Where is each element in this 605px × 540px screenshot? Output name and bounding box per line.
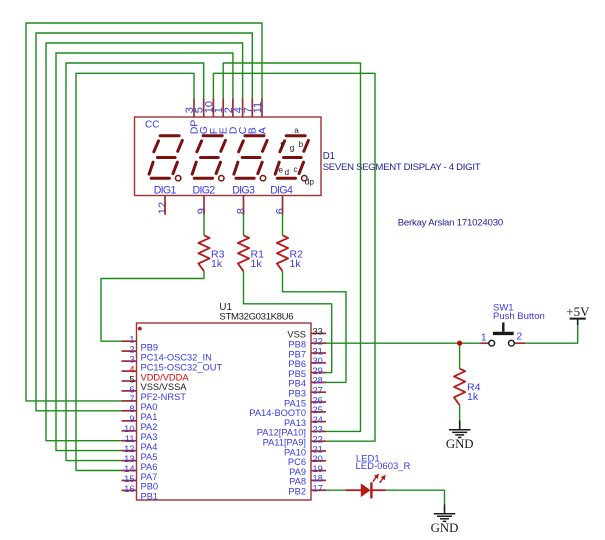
wire U1 PB2 pin17 to LED1 anode (326, 489, 346, 491)
display segment pin names DP G F E D C B A (188, 120, 268, 135)
svg-text:1: 1 (481, 332, 487, 343)
svg-text:PF2-NRST: PF2-NRST (141, 392, 187, 402)
svg-text:PA13: PA13 (284, 418, 306, 428)
svg-text:18: 18 (313, 474, 323, 484)
wire net D : display pin2 to U1 PA5 (56, 53, 233, 451)
svg-text:23: 23 (313, 425, 323, 435)
svg-text:DIG1: DIG1 (154, 185, 177, 197)
svg-text:c: c (294, 165, 298, 174)
svg-text:3: 3 (129, 354, 134, 364)
svg-text:SEVEN SEGMENT DISPLAY - 4 DIGI: SEVEN SEGMENT DISPLAY - 4 DIGIT (323, 162, 481, 173)
wire net C : display pin4 to U1 PA4 (46, 43, 243, 441)
svg-text:PC15-OSC32_OUT: PC15-OSC32_OUT (141, 362, 223, 372)
display bottom pin stubs (165, 195, 283, 215)
svg-text:d: d (285, 168, 290, 177)
svg-text:VSS/VSSA: VSS/VSSA (141, 382, 188, 392)
svg-text:9: 9 (129, 414, 134, 424)
svg-text:GND: GND (431, 521, 459, 535)
U1 right pin names (249, 330, 306, 497)
svg-text:PB3: PB3 (288, 389, 306, 399)
svg-text:7: 7 (129, 394, 134, 404)
svg-text:PA15: PA15 (284, 398, 306, 408)
resistor R1 (238, 235, 249, 271)
svg-text:DIG3: DIG3 (232, 185, 255, 197)
svg-text:11: 11 (125, 434, 135, 444)
svg-text:PA7: PA7 (141, 472, 158, 482)
+5V power terminal (570, 318, 586, 320)
wire display DIG2 pin9 to R3 (203, 214, 205, 235)
svg-text:21: 21 (313, 444, 323, 454)
svg-text:STM32G031K8U6: STM32G031K8U6 (219, 312, 293, 323)
svg-text:D1: D1 (323, 151, 335, 162)
svg-text:+5V: +5V (566, 304, 590, 319)
svg-text:22: 22 (313, 435, 323, 445)
svg-text:27: 27 (313, 386, 323, 396)
display digit 4 segments (275, 136, 308, 179)
svg-text:13: 13 (124, 454, 134, 464)
svg-text:PB5: PB5 (288, 369, 306, 379)
svg-text:PA12[PA10]: PA12[PA10] (257, 428, 306, 438)
svg-text:DIG2: DIG2 (193, 185, 216, 197)
svg-text:PA5: PA5 (141, 452, 158, 462)
U1 pin-1 marker dot (138, 327, 142, 331)
display digit-4 segment letters a f g b e d c dp (278, 126, 314, 187)
wire R4 to GND (459, 405, 461, 421)
svg-text:33: 33 (313, 327, 323, 337)
svg-text:10: 10 (124, 424, 134, 434)
wire net F : display pin10 to U1 PA11 (213, 73, 375, 441)
push button SW1 contacts and actuator (489, 340, 495, 346)
ground under R4 (459, 421, 461, 430)
wire net E : display pin1 to U1 PA12 (223, 63, 360, 431)
svg-text:16: 16 (124, 484, 134, 494)
svg-text:15: 15 (124, 474, 134, 484)
svg-text:e: e (278, 166, 283, 175)
wire R1 bottom to U1 PB5 pin29 (244, 271, 332, 372)
U1 left pin names (141, 342, 223, 501)
svg-text:PA4: PA4 (141, 442, 158, 452)
wire SW1 pin2 to +5V (525, 325, 577, 344)
svg-text:PC14-OSC32_IN: PC14-OSC32_IN (141, 352, 212, 362)
resistor R4 (454, 369, 465, 406)
display digit 1 segments (149, 136, 182, 179)
svg-text:2: 2 (129, 344, 134, 354)
svg-text:5: 5 (129, 374, 134, 384)
LED1 leads (346, 489, 361, 491)
svg-text:PB4: PB4 (288, 379, 306, 389)
svg-text:26: 26 (313, 395, 323, 405)
svg-text:dp: dp (305, 178, 315, 187)
display top pin stubs (194, 99, 262, 118)
op-amp-style MCU U1 body (137, 323, 312, 500)
svg-text:PB8: PB8 (288, 340, 306, 350)
svg-text:Push Button: Push Button (493, 311, 545, 322)
svg-text:LED-0603_R: LED-0603_R (356, 461, 411, 472)
junction node at SW1/R4 (457, 341, 462, 346)
wire junction to R4 (459, 343, 461, 368)
resistor R3 (198, 235, 209, 271)
svg-text:1k: 1k (251, 258, 263, 270)
svg-text:PA6: PA6 (141, 462, 158, 472)
svg-text:31: 31 (313, 346, 323, 356)
svg-text:PA2: PA2 (141, 422, 158, 432)
svg-text:GND: GND (446, 437, 474, 451)
svg-text:2: 2 (517, 332, 523, 343)
wire display DIG4 pin6 to R2 (282, 214, 284, 235)
svg-text:PA3: PA3 (141, 432, 158, 442)
svg-text:VDD/VDDA: VDD/VDDA (141, 372, 190, 382)
U1 left pin stubs 1-16 (122, 341, 137, 490)
svg-text:PA10: PA10 (284, 447, 306, 457)
svg-text:4: 4 (129, 364, 134, 374)
svg-text:30: 30 (313, 356, 323, 366)
wire display DIG3 pin8 to R1 (243, 214, 245, 235)
U1 right pin numbers 17-33 (313, 327, 323, 494)
wire R2 bottom to U1 PB4 pin28 (283, 271, 347, 382)
wire R3 bottom to U1 PB9 pin1 (101, 271, 204, 341)
display top pin numbers 3 5 10 1 2 4 7 11 (184, 101, 264, 113)
svg-text:PA9: PA9 (289, 467, 306, 477)
wire net G : display pin5 to U1 PA6 (66, 63, 204, 461)
svg-text:VSS: VSS (287, 330, 306, 340)
svg-text:32: 32 (313, 337, 323, 347)
svg-text:PC6: PC6 (288, 457, 306, 467)
svg-text:19: 19 (313, 464, 323, 474)
svg-text:1k: 1k (467, 391, 479, 403)
ground under LED1 (444, 504, 446, 513)
7-segment display D1 body (135, 117, 322, 196)
svg-text:8: 8 (129, 404, 134, 414)
svg-text:PB7: PB7 (288, 349, 306, 359)
svg-text:PB0: PB0 (141, 482, 159, 492)
svg-text:a: a (294, 126, 299, 135)
svg-text:PB9: PB9 (141, 342, 159, 352)
svg-text:14: 14 (124, 464, 134, 474)
display digit 3 segments (234, 136, 267, 179)
svg-text:9: 9 (196, 208, 208, 214)
svg-text:6: 6 (129, 384, 134, 394)
svg-text:g: g (290, 143, 295, 152)
wire net DP : display pin3 to U1 PA7 (76, 73, 194, 470)
svg-text:PA0: PA0 (141, 402, 158, 412)
display bottom pin numbers 12 9 8 6 (157, 202, 287, 214)
push button SW1 pin stubs (480, 342, 488, 344)
svg-text:PB2: PB2 (288, 487, 306, 497)
svg-text:6: 6 (275, 208, 287, 214)
svg-text:24: 24 (313, 415, 323, 425)
svg-text:25: 25 (313, 405, 323, 415)
wire LED1 cathode to GND (386, 490, 445, 505)
svg-text:1k: 1k (290, 258, 302, 270)
svg-text:28: 28 (313, 376, 323, 386)
U1 left pin numbers 1-16 (124, 335, 134, 494)
svg-text:12: 12 (157, 202, 169, 214)
svg-text:12: 12 (124, 444, 134, 454)
svg-text:PA14-BOOT0: PA14-BOOT0 (249, 408, 306, 418)
LED1 emission arrows (373, 474, 386, 483)
svg-text:DIG4: DIG4 (270, 185, 293, 197)
svg-text:29: 29 (313, 366, 323, 376)
svg-text:17: 17 (313, 484, 323, 494)
wire U1 PB8 pin32 to SW1 pin1 (326, 342, 480, 344)
svg-text:A: A (256, 127, 268, 134)
svg-text:PB1: PB1 (141, 492, 159, 502)
LED1 diode symbol (361, 483, 371, 497)
svg-text:PA8: PA8 (289, 477, 306, 487)
svg-text:CC: CC (145, 120, 159, 131)
svg-text:PA1: PA1 (141, 412, 158, 422)
svg-text:20: 20 (313, 454, 323, 464)
svg-text:b: b (299, 140, 304, 149)
svg-text:PA11[PA9]: PA11[PA9] (263, 438, 306, 448)
svg-text:1: 1 (129, 335, 134, 345)
display digit 2 segments (192, 136, 225, 179)
svg-text:PB6: PB6 (288, 359, 306, 369)
U1 right pin stubs 17-33 (311, 333, 326, 490)
wire net A : display pin11 to U1 PA0 (26, 23, 262, 401)
svg-text:8: 8 (236, 208, 248, 214)
wire net B : display pin7 to U1 PA1 (36, 33, 252, 411)
resistor R2 (277, 235, 288, 271)
svg-text:1k: 1k (211, 258, 223, 270)
svg-text:Berkay Arslan 171024030: Berkay Arslan 171024030 (398, 218, 503, 229)
